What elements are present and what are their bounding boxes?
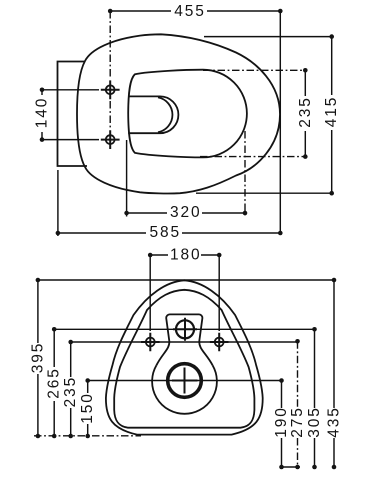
dim 275 [289, 339, 306, 469]
dim 585 [56, 170, 283, 241]
outlet ring [168, 364, 202, 398]
inner rim outline (top view) [128, 70, 247, 158]
fixing hole H2 (top view) [101, 130, 120, 149]
outlet centerline extension y=380.5 [88, 380, 282, 382]
bottom baseline dashed [34, 435, 141, 437]
svg-text:395: 395 [29, 342, 46, 374]
top tangent extension y=280 [38, 279, 334, 281]
side hole left [141, 333, 160, 352]
dim 455 [108, 3, 283, 20]
svg-text:235: 235 [297, 96, 314, 128]
side hole right [210, 333, 229, 352]
svg-text:235: 235 [62, 376, 79, 408]
dim 180 [148, 247, 222, 332]
dim 235 (top view) [200, 68, 314, 159]
svg-text:320: 320 [170, 204, 202, 221]
right vertical extension x=280 [279, 11, 281, 233]
svg-text:455: 455 [174, 3, 206, 20]
svg-text:190: 190 [273, 406, 290, 438]
outer base outline [106, 280, 263, 434]
water area bullet inner arc [158, 97, 172, 132]
svg-text:275: 275 [289, 406, 306, 438]
hole centerline vertical dashed [109, 11, 111, 78]
dim 320 [124, 131, 247, 221]
dim 305 [306, 327, 323, 469]
dim 190 [273, 378, 300, 469]
dim 150 [79, 378, 96, 438]
inlet centerline extension y=329.3 [54, 328, 314, 330]
svg-text:265: 265 [46, 367, 63, 399]
dim 415 [196, 34, 340, 195]
cistern tab rectangle (top view, left) [58, 62, 88, 167]
svg-text:305: 305 [306, 406, 323, 438]
outer bowl outline (top view) [77, 34, 280, 193]
inlet hole [173, 318, 197, 341]
dim 140 [34, 88, 51, 142]
dim 395 [29, 278, 46, 439]
hole extension lines left [42, 89, 99, 91]
svg-text:415: 415 [323, 96, 340, 128]
pot / keyhole outline [166, 314, 212, 365]
svg-text:140: 140 [34, 97, 51, 129]
side hole centerline extension y=342 [71, 341, 298, 343]
water area bullet outer [128, 96, 178, 133]
inner base outline [114, 290, 254, 428]
svg-text:435: 435 [326, 406, 343, 438]
fixing hole H1 (top view) [101, 80, 120, 99]
svg-text:180: 180 [170, 247, 202, 264]
dim 235 (bottom) [62, 340, 79, 439]
svg-text:585: 585 [150, 224, 182, 241]
dim 265 [46, 327, 63, 438]
svg-text:150: 150 [79, 392, 96, 424]
dim 435 [326, 278, 343, 470]
